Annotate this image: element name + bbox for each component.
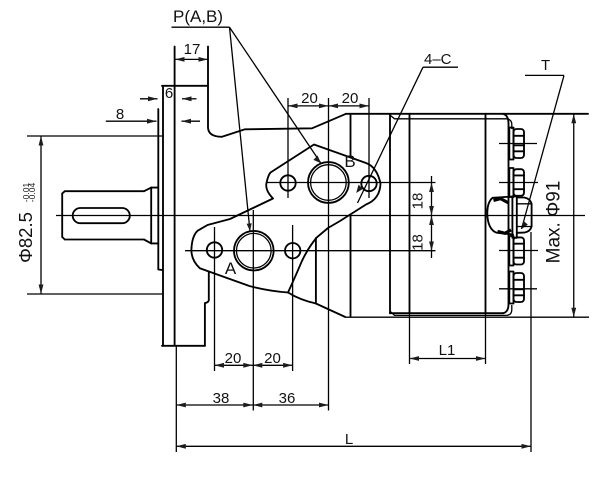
dimension L1 <box>410 342 486 361</box>
label P(A,B) with leaders <box>172 7 321 231</box>
ext vertical A right hole <box>292 225 294 371</box>
bolt 4 bottom <box>509 272 524 304</box>
neck right face and fillet into boss <box>208 47 346 137</box>
svg-text:8: 8 <box>116 106 124 123</box>
plug collar <box>512 196 516 238</box>
bolt 1 top <box>509 128 524 160</box>
cross line through ports A horizontal <box>185 250 436 252</box>
body bottom inner chamfer line <box>391 305 512 315</box>
svg-text:4–C: 4–C <box>424 51 452 68</box>
svg-text:Max. Φ91: Max. Φ91 <box>544 181 565 264</box>
boss right edge lower segment <box>350 216 352 316</box>
port B inner circle <box>311 165 347 201</box>
bolt 2 <box>509 168 524 197</box>
port A inner circle <box>237 233 272 268</box>
plug hex facet lines <box>517 204 532 227</box>
ext vertical flange front lower <box>175 346 177 452</box>
ext vertical B center <box>328 98 330 411</box>
svg-text:38: 38 <box>213 390 230 407</box>
ext vertical A center <box>252 210 254 411</box>
dimension 8 <box>106 106 200 124</box>
svg-text:A: A <box>225 259 237 278</box>
body front face <box>389 114 391 313</box>
bolt 2 centerline <box>499 182 538 184</box>
body top inner line <box>391 116 512 130</box>
dimension 20 20 bottom <box>215 350 293 368</box>
port B left bolt hole <box>280 175 295 190</box>
bolt 1 centerline <box>499 143 537 145</box>
bolt 4 centerline <box>499 288 537 290</box>
dimension 38 36 <box>176 390 328 408</box>
svg-text:18: 18 <box>410 234 427 251</box>
shaft <box>62 191 144 239</box>
bolt 3 <box>509 236 524 266</box>
dimension Max phi91 <box>345 114 589 317</box>
boss bottom profile <box>316 303 345 317</box>
pad bottom edge flat to boss corner <box>288 293 316 304</box>
seal boss <box>151 188 158 244</box>
label T with leader <box>522 57 565 229</box>
port A left bolt hole <box>207 242 222 257</box>
boss edge below pad <box>315 238 317 303</box>
plug top facet <box>494 199 509 203</box>
port A right bolt hole <box>285 243 300 258</box>
ext vertical L1 left <box>409 313 411 364</box>
svg-text:20: 20 <box>342 90 359 107</box>
body top edge with Max dim extension <box>346 113 588 115</box>
svg-text:18: 18 <box>410 193 427 210</box>
ext vertical B left hole <box>287 98 289 198</box>
plug hex <box>517 198 532 233</box>
ext vertical L1 right <box>485 313 487 364</box>
svg-text:20: 20 <box>301 90 318 107</box>
end cap face <box>485 114 487 313</box>
svg-text:L1: L1 <box>439 342 456 359</box>
port B outer circle <box>308 162 349 203</box>
dimension 6 <box>140 85 197 102</box>
shaft flare to seal boss <box>144 188 151 244</box>
pilot top edge / dim ext top <box>27 135 162 137</box>
cross line through ports B horizontal <box>266 182 436 184</box>
body bottom edge <box>390 312 503 314</box>
pilot bottom edge / dim ext bottom <box>27 293 162 295</box>
svg-text:T: T <box>541 57 550 74</box>
svg-text:B: B <box>344 152 355 171</box>
port A outer circle <box>234 231 274 271</box>
pilot front face <box>158 109 162 270</box>
boss left face <box>205 272 209 346</box>
svg-text:36: 36 <box>279 390 296 407</box>
center plug cap <box>487 197 513 235</box>
svg-text:6: 6 <box>165 85 173 102</box>
bolt 3 centerline <box>499 250 538 252</box>
ext vertical L right at plug tip <box>530 232 532 452</box>
port pad outline <box>191 145 380 293</box>
svg-text:20: 20 <box>264 350 281 367</box>
dimension phi82.5 <box>15 136 43 294</box>
end cap right edge <box>503 114 509 313</box>
svg-text:L: L <box>345 431 353 448</box>
svg-text:20: 20 <box>225 350 242 367</box>
boss right edge upper segment <box>350 115 352 157</box>
label 4-C with leader <box>356 51 458 203</box>
plug bottom facet <box>498 230 512 233</box>
svg-text:P(A,B): P(A,B) <box>173 7 223 26</box>
body mid seam <box>409 114 411 313</box>
centerline main axis <box>56 215 585 217</box>
port B right bolt hole <box>361 176 376 191</box>
ext vertical B right hole <box>368 98 370 198</box>
svg-text:17: 17 <box>184 41 201 58</box>
dimension 20 20 top <box>288 90 369 108</box>
svg-text:-0.04: -0.04 <box>27 183 37 203</box>
flange plate <box>162 86 164 346</box>
dimension 17 <box>175 41 208 62</box>
keyway <box>73 208 130 223</box>
dimension 18 18 <box>410 176 434 258</box>
ext vertical A left hole <box>214 227 216 371</box>
dimension L <box>176 431 531 449</box>
svg-text:Φ82.5: Φ82.5 <box>15 212 36 263</box>
